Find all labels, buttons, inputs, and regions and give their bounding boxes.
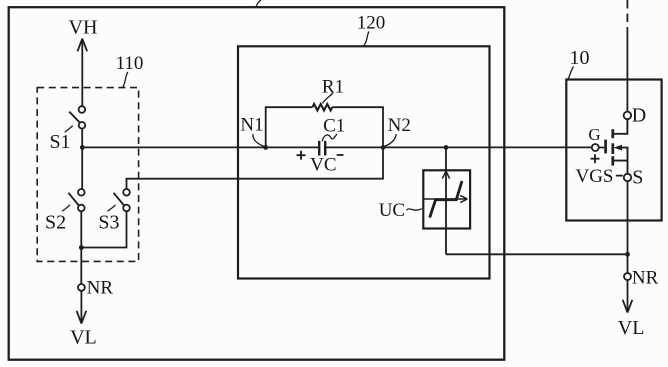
box 120 [238,46,490,278]
minus sign VC [337,154,344,156]
svg-text:VH: VH [69,16,98,38]
resistor R1 [313,104,333,110]
plus sign VC [297,151,306,160]
transistor Q1 source lead [627,161,629,174]
svg-text:110: 110 [116,53,144,74]
leader S1 [65,126,73,133]
svg-text:S2: S2 [45,212,66,234]
leader to cropped top label [256,0,261,7]
UC y-axis arrowhead [442,171,449,178]
switch S1 [79,106,86,113]
transistor Q1 channel middle [611,143,614,154]
wire R1 branch [266,107,383,147]
switch S2 [78,189,85,196]
svg-text:N1: N1 [240,114,263,135]
svg-text:S1: S1 [49,131,70,153]
svg-text:VL: VL [618,317,645,339]
node NR right [624,273,631,280]
box 10 [566,80,661,221]
leader N1 [253,134,264,147]
capacitor C1 [319,141,325,156]
leader 10 [568,67,573,79]
UC transfer curve [430,181,462,218]
transistor Q1 body lead [613,148,628,161]
transistor Q1 gate bar [604,140,607,154]
svg-text:NR: NR [632,267,659,288]
wire drain top dashed [626,0,628,32]
wire S3 bottom link [81,211,126,247]
transistor Q1 gate lead [599,147,605,149]
node S [624,174,631,181]
switch S3 [123,189,130,196]
svg-text:C1: C1 [323,116,345,137]
UC x-axis [423,195,467,202]
wire UC vertical [445,147,447,254]
node UC tap [444,145,449,150]
leader R1 [322,93,333,103]
plus sign VGS [591,154,600,163]
svg-text:R1: R1 [322,76,344,97]
minus sign VGS [616,175,623,177]
node S2/S3 junction [79,245,84,250]
arrow VH [78,39,88,107]
outer box (module) [9,7,505,360]
wire main horizontal (right of C1) [326,146,592,148]
svg-text:10: 10 [570,47,590,69]
leader 120 [364,32,369,46]
box UC [423,170,470,228]
wire main horizontal (left of C1) [82,146,318,148]
node D [624,112,632,120]
leader 110 [123,72,128,87]
svg-text:G: G [588,125,600,144]
transistor Q1 body arrow [614,145,623,151]
transistor Q1 drain lead [613,119,628,134]
dashed box 110 [37,88,138,262]
svg-text:D: D [632,105,646,127]
svg-text:S: S [632,166,643,188]
wire source down [627,181,629,273]
arrow VL right [623,280,633,313]
arrow VL left [77,291,87,324]
svg-text:VC: VC [310,154,336,175]
node right junction [625,252,630,257]
node N2 [381,145,386,150]
node NR left [78,284,85,291]
leader N2 [385,134,397,146]
svg-text:NR: NR [87,278,114,299]
leader UC [407,209,422,211]
node S1 junction [80,145,85,150]
wire drain top solid [626,32,628,112]
transistor Q1 channel top [611,129,614,138]
node G [592,144,599,151]
svg-text:N2: N2 [388,115,411,136]
svg-text:VGS: VGS [575,166,613,187]
node N1 [263,145,268,150]
wire S2 down to NR [80,211,82,284]
svg-text:UC: UC [379,200,405,221]
transistor Q1 channel bottom [611,156,614,165]
wire S3 top to N2 [127,147,384,189]
svg-text:120: 120 [357,12,386,33]
svg-text:VL: VL [70,326,97,348]
leader S2 [62,205,70,211]
wire UC out to right [446,253,628,255]
svg-text:S3: S3 [98,212,119,234]
leader C1 [322,134,337,141]
leader S3 [108,205,116,211]
wire S1 to node [81,129,83,189]
